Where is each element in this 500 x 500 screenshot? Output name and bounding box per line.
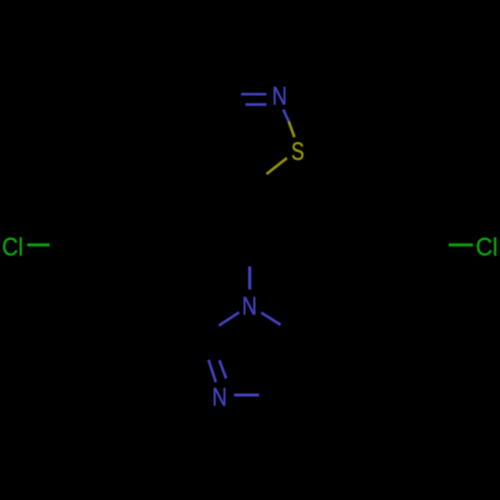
svg-text:Cl: Cl <box>476 234 498 262</box>
svg-text:S: S <box>291 138 304 166</box>
bond Cl-C (right), chlorine-colored half <box>449 243 473 246</box>
bond N1-C5, nitrogen-colored half <box>261 313 280 325</box>
bond N2-S1, sulfur-colored half <box>289 121 295 137</box>
bond Cl-C (left), chlorine-colored half <box>27 243 49 246</box>
bond C3=N2 double bond (isothiazole), blue halves <box>241 94 266 104</box>
svg-text:N: N <box>212 383 227 411</box>
bond C(central)-N1, nitrogen-colored half <box>248 266 251 289</box>
svg-text:N: N <box>242 291 257 319</box>
bond N1-C2, nitrogen-colored half <box>219 312 239 325</box>
bond N3-C4, nitrogen-colored half <box>234 394 259 397</box>
svg-text:Cl: Cl <box>2 233 23 261</box>
bond N2-S1, nitrogen-colored half <box>283 110 289 122</box>
bond C2=N3 double bond, nitrogen-colored halves <box>209 360 227 383</box>
bond S1-C5, sulfur-colored half <box>267 158 287 174</box>
svg-text:N: N <box>272 81 287 109</box>
